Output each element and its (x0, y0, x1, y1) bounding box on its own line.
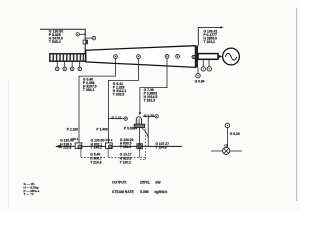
svg-text:OUTPUT:: OUTPUT: (112, 181, 127, 185)
svg-text:5.058: 5.058 (140, 190, 149, 194)
svg-text:kg/kW.h: kg/kW.h (155, 190, 168, 194)
svg-text:G 0.39: G 0.39 (230, 132, 240, 136)
svg-text:G 0.84: G 0.84 (195, 80, 205, 84)
svg-text:T 104.8: T 104.8 (155, 145, 166, 149)
svg-text:T 333.5: T 333.5 (113, 93, 125, 97)
svg-text:P 2.180: P 2.180 (67, 128, 78, 132)
svg-text:T — °C: T — °C (24, 192, 35, 196)
svg-text:STEAM RATE: STEAM RATE (112, 190, 135, 194)
svg-text:T 214.9: T 214.9 (90, 160, 101, 164)
svg-text:T 535.3: T 535.3 (49, 40, 61, 44)
svg-text:T 213.8: T 213.8 (60, 146, 71, 150)
svg-text:T 281.9: T 281.9 (144, 98, 156, 102)
svg-text:T 384.1: T 384.1 (83, 88, 95, 92)
svg-text:kW: kW (156, 181, 162, 185)
svg-text:P 1.406: P 1.406 (96, 127, 107, 131)
svg-text:T 190.2: T 190.2 (91, 146, 102, 150)
svg-text:G 1.21: G 1.21 (112, 116, 122, 120)
svg-text:CP: CP (224, 143, 228, 147)
svg-text:LPH 2: LPH 2 (105, 138, 113, 142)
svg-text:T 158.3: T 158.3 (120, 145, 131, 149)
svg-text:25701.: 25701. (140, 181, 150, 185)
svg-text:T 190.2: T 190.2 (120, 160, 131, 164)
svg-text:G 1.70: G 1.70 (144, 114, 154, 118)
svg-text:T 104.2: T 104.2 (203, 40, 215, 44)
